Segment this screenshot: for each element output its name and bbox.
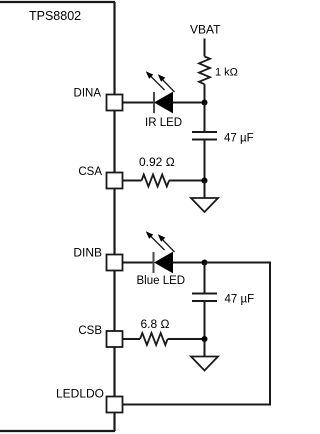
svg-text:6.8 Ω: 6.8 Ω bbox=[141, 317, 170, 331]
svg-text:0.92 Ω: 0.92 Ω bbox=[139, 155, 175, 169]
wire node B2 to ground bbox=[204, 339, 206, 357]
wire R1 to node A bbox=[204, 84, 206, 102]
node A junction bbox=[202, 100, 208, 106]
op-amp U1 TPS8802 IC outline bbox=[0, 2, 115, 431]
LED D2 emission arrows bbox=[146, 231, 175, 252]
wire C2 to node B2 bbox=[204, 301, 206, 339]
node B2 junction bbox=[202, 336, 208, 342]
wire VBAT to R1 bbox=[204, 39, 206, 57]
node A2 junction bbox=[202, 178, 208, 184]
svg-text:CSA: CSA bbox=[78, 166, 102, 178]
svg-text:DINB: DINB bbox=[73, 246, 102, 260]
svg-text:IR LED: IR LED bbox=[145, 117, 182, 129]
capacitor C1 47 uF bbox=[192, 132, 217, 140]
resistor R3 6.8 Ohm bbox=[140, 333, 168, 345]
wire C1 to node A2 bbox=[204, 140, 206, 181]
pin DINB bbox=[107, 255, 123, 271]
wire LEDLDO return path bbox=[123, 263, 271, 405]
svg-text:TPS8802: TPS8802 bbox=[29, 9, 81, 23]
svg-text:DINA: DINA bbox=[74, 88, 102, 100]
wire node A2 to ground bbox=[204, 181, 206, 199]
svg-text:Blue LED: Blue LED bbox=[137, 275, 186, 287]
ground GND B bbox=[191, 357, 218, 371]
svg-text:47 µF: 47 µF bbox=[225, 294, 255, 306]
wire Blue LED anode to node B bbox=[173, 262, 205, 264]
svg-text:LEDLDO: LEDLDO bbox=[56, 387, 104, 401]
LED D2 Blue LED bbox=[154, 252, 173, 273]
wire CSB to R3 bbox=[123, 338, 141, 340]
LED D1 IR LED bbox=[154, 92, 173, 113]
pin CSA bbox=[107, 173, 123, 189]
wire DINA to IR LED cathode bbox=[123, 102, 155, 104]
svg-text:1 kΩ: 1 kΩ bbox=[215, 67, 238, 79]
ground GND A bbox=[191, 198, 218, 212]
wire IR LED anode to node A bbox=[173, 102, 205, 104]
wire DINB to Blue LED cathode bbox=[123, 262, 154, 264]
resistor R2 0.92 Ohm bbox=[142, 175, 170, 187]
svg-text:CSB: CSB bbox=[78, 325, 102, 337]
capacitor C2 47 uF bbox=[192, 294, 217, 302]
pin LEDLDO bbox=[107, 397, 123, 413]
wire node A to C1 bbox=[204, 103, 206, 133]
wire CSA to R2 bbox=[123, 180, 142, 182]
wire node B to C2 bbox=[204, 263, 206, 294]
resistor R1 1 kOhm bbox=[199, 57, 210, 85]
LED D1 emission arrows bbox=[146, 71, 175, 92]
wire R2 to node A2 bbox=[169, 180, 204, 182]
pin DINA bbox=[107, 95, 123, 111]
pin CSB bbox=[107, 331, 123, 347]
wire R3 to node B2 bbox=[168, 338, 205, 340]
svg-text:47 µF: 47 µF bbox=[224, 133, 254, 145]
svg-text:VBAT: VBAT bbox=[190, 23, 221, 37]
node B junction bbox=[202, 260, 208, 266]
